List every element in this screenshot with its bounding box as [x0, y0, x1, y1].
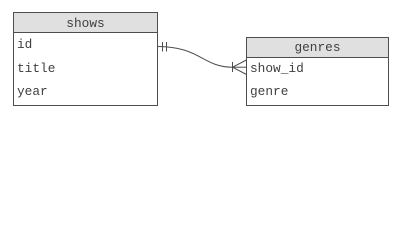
- svg-text:id: id: [17, 37, 32, 52]
- svg-text:title: title: [17, 61, 55, 76]
- svg-text:shows: shows: [66, 16, 104, 31]
- svg-text:genres: genres: [294, 40, 340, 55]
- svg-text:genre: genre: [250, 84, 288, 99]
- svg-text:year: year: [17, 84, 48, 99]
- svg-text:show_id: show_id: [250, 61, 304, 76]
